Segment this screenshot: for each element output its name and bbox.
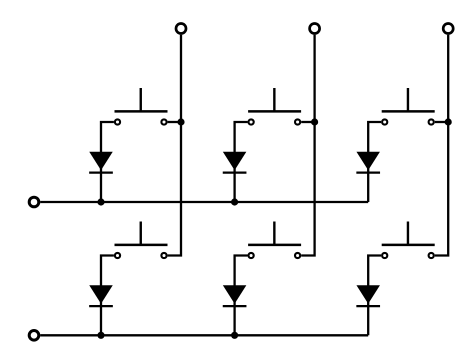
diode D1 (89, 152, 113, 173)
junction COL2-S2 (311, 118, 318, 125)
terminal COL1 (176, 24, 186, 34)
switch S5 (248, 222, 301, 259)
junction D1-ROW1 (97, 198, 104, 205)
wire S3 left terminal to D3 and down to ROW1 (368, 122, 381, 202)
wire COL2 vertical with bend into S5 right terminal (301, 35, 314, 256)
diode D4 (89, 285, 113, 306)
junction D5-ROW2 (231, 332, 238, 339)
switch S1 (115, 88, 168, 125)
wire S2 left terminal to D2 and down to ROW1 (235, 122, 248, 202)
junction D4-ROW2 (97, 332, 104, 339)
junction COL3-S3 (445, 118, 452, 125)
wire COL3 vertical with bend into S6 right terminal (435, 35, 448, 256)
terminal ROW1 (29, 197, 39, 207)
switch S4 (115, 222, 168, 259)
diode D5 (223, 285, 247, 306)
diode D2 (223, 152, 247, 173)
wire S3 right terminal to COL3 (435, 121, 448, 123)
wire COL1 vertical with bend into S4 right terminal (168, 35, 181, 256)
switch S3 (382, 88, 435, 125)
junction COL1-S1 (177, 118, 184, 125)
terminal COL3 (443, 24, 453, 34)
terminal COL2 (310, 24, 320, 34)
diode D6 (356, 285, 380, 306)
wire S6 left terminal to D6 and down to ROW2 (368, 256, 381, 336)
terminal ROW2 (29, 331, 39, 341)
wire S4 left terminal to D4 and down to ROW2 (101, 256, 114, 336)
wire S5 left terminal to D5 and down to ROW2 (235, 256, 248, 336)
wire S2 right terminal to COL2 (301, 121, 314, 123)
wire ROW1 horizontal (40, 201, 368, 203)
diode D3 (356, 152, 380, 173)
switch S2 (248, 88, 301, 125)
switch S6 (382, 222, 435, 259)
wire ROW2 horizontal (40, 334, 368, 336)
junction D2-ROW1 (231, 198, 238, 205)
wire S1 left terminal to D1 and down to ROW1 (101, 122, 114, 202)
wire S1 right terminal to COL1 (168, 121, 181, 123)
